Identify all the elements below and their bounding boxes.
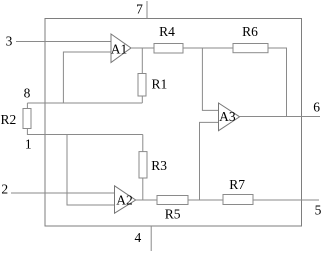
- wire A2 output: [136, 199, 157, 201]
- svg-text:A3: A3: [219, 109, 236, 124]
- svg-text:R3: R3: [151, 158, 167, 173]
- resistor R6: [233, 44, 268, 53]
- resistor R3: [139, 152, 147, 178]
- svg-text:5: 5: [315, 203, 322, 218]
- wire pin7 lead: [146, 1, 148, 19]
- wire A3 output pin6 lead: [240, 116, 320, 118]
- wire R6 feedback to A3 output: [268, 48, 287, 117]
- op-amp A3: [219, 103, 240, 131]
- svg-text:R1: R1: [152, 76, 168, 91]
- resistor R1: [138, 74, 146, 97]
- wire R2 top lead: [26, 103, 28, 109]
- wire down to R3: [142, 135, 144, 152]
- svg-text:2: 2: [1, 182, 8, 197]
- resistor R4: [154, 44, 183, 54]
- wire branch to A2 inverting input: [67, 135, 115, 206]
- op-amp A2: [115, 186, 136, 213]
- svg-text:R7: R7: [229, 177, 245, 192]
- wire R1 top lead: [141, 48, 143, 74]
- wire to A3 noninverting input: [202, 48, 218, 110]
- svg-text:A2: A2: [116, 193, 133, 208]
- svg-text:1: 1: [25, 137, 32, 152]
- svg-text:R5: R5: [165, 207, 181, 222]
- IC package outline: [45, 19, 302, 227]
- wire pin3 lead: [16, 41, 111, 43]
- wire R5 to R7: [188, 199, 223, 201]
- wire feedback bus: [27, 102, 142, 104]
- wire junction up to A3 inverting input: [200, 122, 219, 200]
- svg-text:3: 3: [6, 34, 13, 49]
- svg-text:7: 7: [136, 2, 143, 17]
- svg-text:8: 8: [24, 86, 31, 101]
- resistor R7: [223, 195, 253, 205]
- wire A1 output: [131, 47, 154, 49]
- svg-text:4: 4: [135, 230, 142, 245]
- wire R3 bottom lead: [142, 178, 144, 200]
- resistor R5: [157, 196, 188, 205]
- svg-text:6: 6: [313, 100, 320, 115]
- svg-text:R4: R4: [159, 24, 175, 39]
- svg-text:R6: R6: [242, 24, 258, 39]
- wire R2 bottom lead: [27, 129, 142, 135]
- wire pin4 lead: [150, 226, 152, 251]
- svg-text:R2: R2: [1, 112, 17, 127]
- wire pin2 lead: [11, 192, 115, 194]
- wire A1 inverting input: [63, 52, 111, 103]
- svg-text:A1: A1: [111, 42, 128, 57]
- resistor R2: [23, 109, 31, 129]
- op-amp A1: [111, 34, 131, 63]
- wire R4 to R6: [183, 47, 233, 49]
- wire R7 to pin5 lead: [253, 199, 319, 201]
- wire R1 bottom lead: [141, 96, 143, 103]
